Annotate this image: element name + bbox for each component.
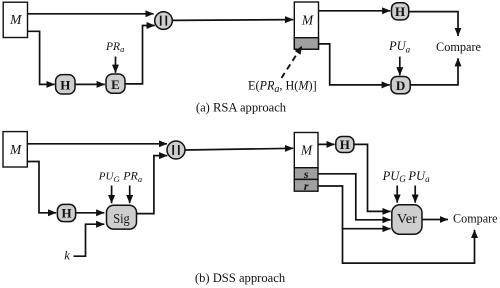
wire r to Ver (b) xyxy=(318,186,391,229)
wire H to Ver (b) xyxy=(354,144,391,211)
wire r to compare loop (b) xyxy=(343,228,475,263)
signature function Sig xyxy=(107,205,137,229)
svg-text:M: M xyxy=(9,142,22,157)
svg-text:E: E xyxy=(111,77,120,92)
svg-text:H: H xyxy=(61,206,71,221)
svg-text:r: r xyxy=(304,179,309,193)
wire D to compare (a) xyxy=(410,58,458,85)
wire M down to H (a) xyxy=(28,31,55,84)
wire PUG to Ver (b) xyxy=(396,186,398,203)
wire M to concat (b) xyxy=(27,143,167,145)
svg-text:(b) DSS approach: (b) DSS approach xyxy=(195,271,286,285)
wire M down to H (b) xyxy=(27,162,56,213)
concatenation node (a) xyxy=(155,12,173,30)
verification function Ver xyxy=(392,205,422,235)
svg-text:(a) RSA approach: (a) RSA approach xyxy=(196,101,287,115)
wire k to Sig xyxy=(74,224,105,256)
decrypt function D xyxy=(391,77,410,94)
hash function H (a sender) xyxy=(56,75,75,94)
wire concat to received message (a) xyxy=(172,19,293,22)
box M source (a) xyxy=(3,2,27,37)
wire concat to received message (b) xyxy=(185,148,293,150)
received message block M with appended signature (a) xyxy=(294,2,318,49)
svg-text:H: H xyxy=(340,137,350,152)
svg-text:H: H xyxy=(395,4,405,19)
svg-text:k: k xyxy=(64,249,70,263)
svg-text:M: M xyxy=(9,12,22,27)
wire PRa to Sig (b) xyxy=(129,186,131,204)
wire E to concat (a) xyxy=(125,26,155,84)
svg-text:Compare: Compare xyxy=(453,211,498,226)
received message block M with s and r (b) xyxy=(294,133,318,193)
wire PUG to Sig (b) xyxy=(111,186,113,204)
concatenation node (b) xyxy=(167,141,185,159)
wire PUa to D (a) xyxy=(399,57,401,76)
wire Ver to compare (b) xyxy=(422,219,448,221)
wire PRa to E (a) xyxy=(115,57,117,73)
wire s to Ver (b) xyxy=(318,174,391,220)
wire PUa to Ver (b) xyxy=(414,186,416,203)
svg-text:Sig: Sig xyxy=(113,212,130,227)
wire H to compare (a) xyxy=(409,12,458,36)
wire signature to D (a) xyxy=(319,44,390,85)
encrypt function E xyxy=(106,74,125,93)
wire Sig to concat (b) xyxy=(137,156,168,214)
hash function H (b sender) xyxy=(57,204,75,221)
hash function H (b receiver) xyxy=(336,137,354,153)
svg-text:Ver: Ver xyxy=(397,211,418,226)
svg-text:M: M xyxy=(301,13,314,28)
dashed pointer to signature block (a) xyxy=(282,46,303,78)
wire received M to H (b) xyxy=(318,143,335,145)
wire H to E (a) xyxy=(75,83,105,85)
wire M to concat (a) xyxy=(28,13,154,15)
svg-text:H: H xyxy=(60,77,70,92)
wire H to Sig (b) xyxy=(76,212,105,214)
svg-text:D: D xyxy=(396,78,405,93)
hash function H (a receiver) xyxy=(392,3,409,20)
box M source (b) xyxy=(3,132,27,167)
svg-text:Compare: Compare xyxy=(436,39,481,54)
wire received M to H (a) xyxy=(319,10,391,12)
svg-text:M: M xyxy=(300,142,313,157)
